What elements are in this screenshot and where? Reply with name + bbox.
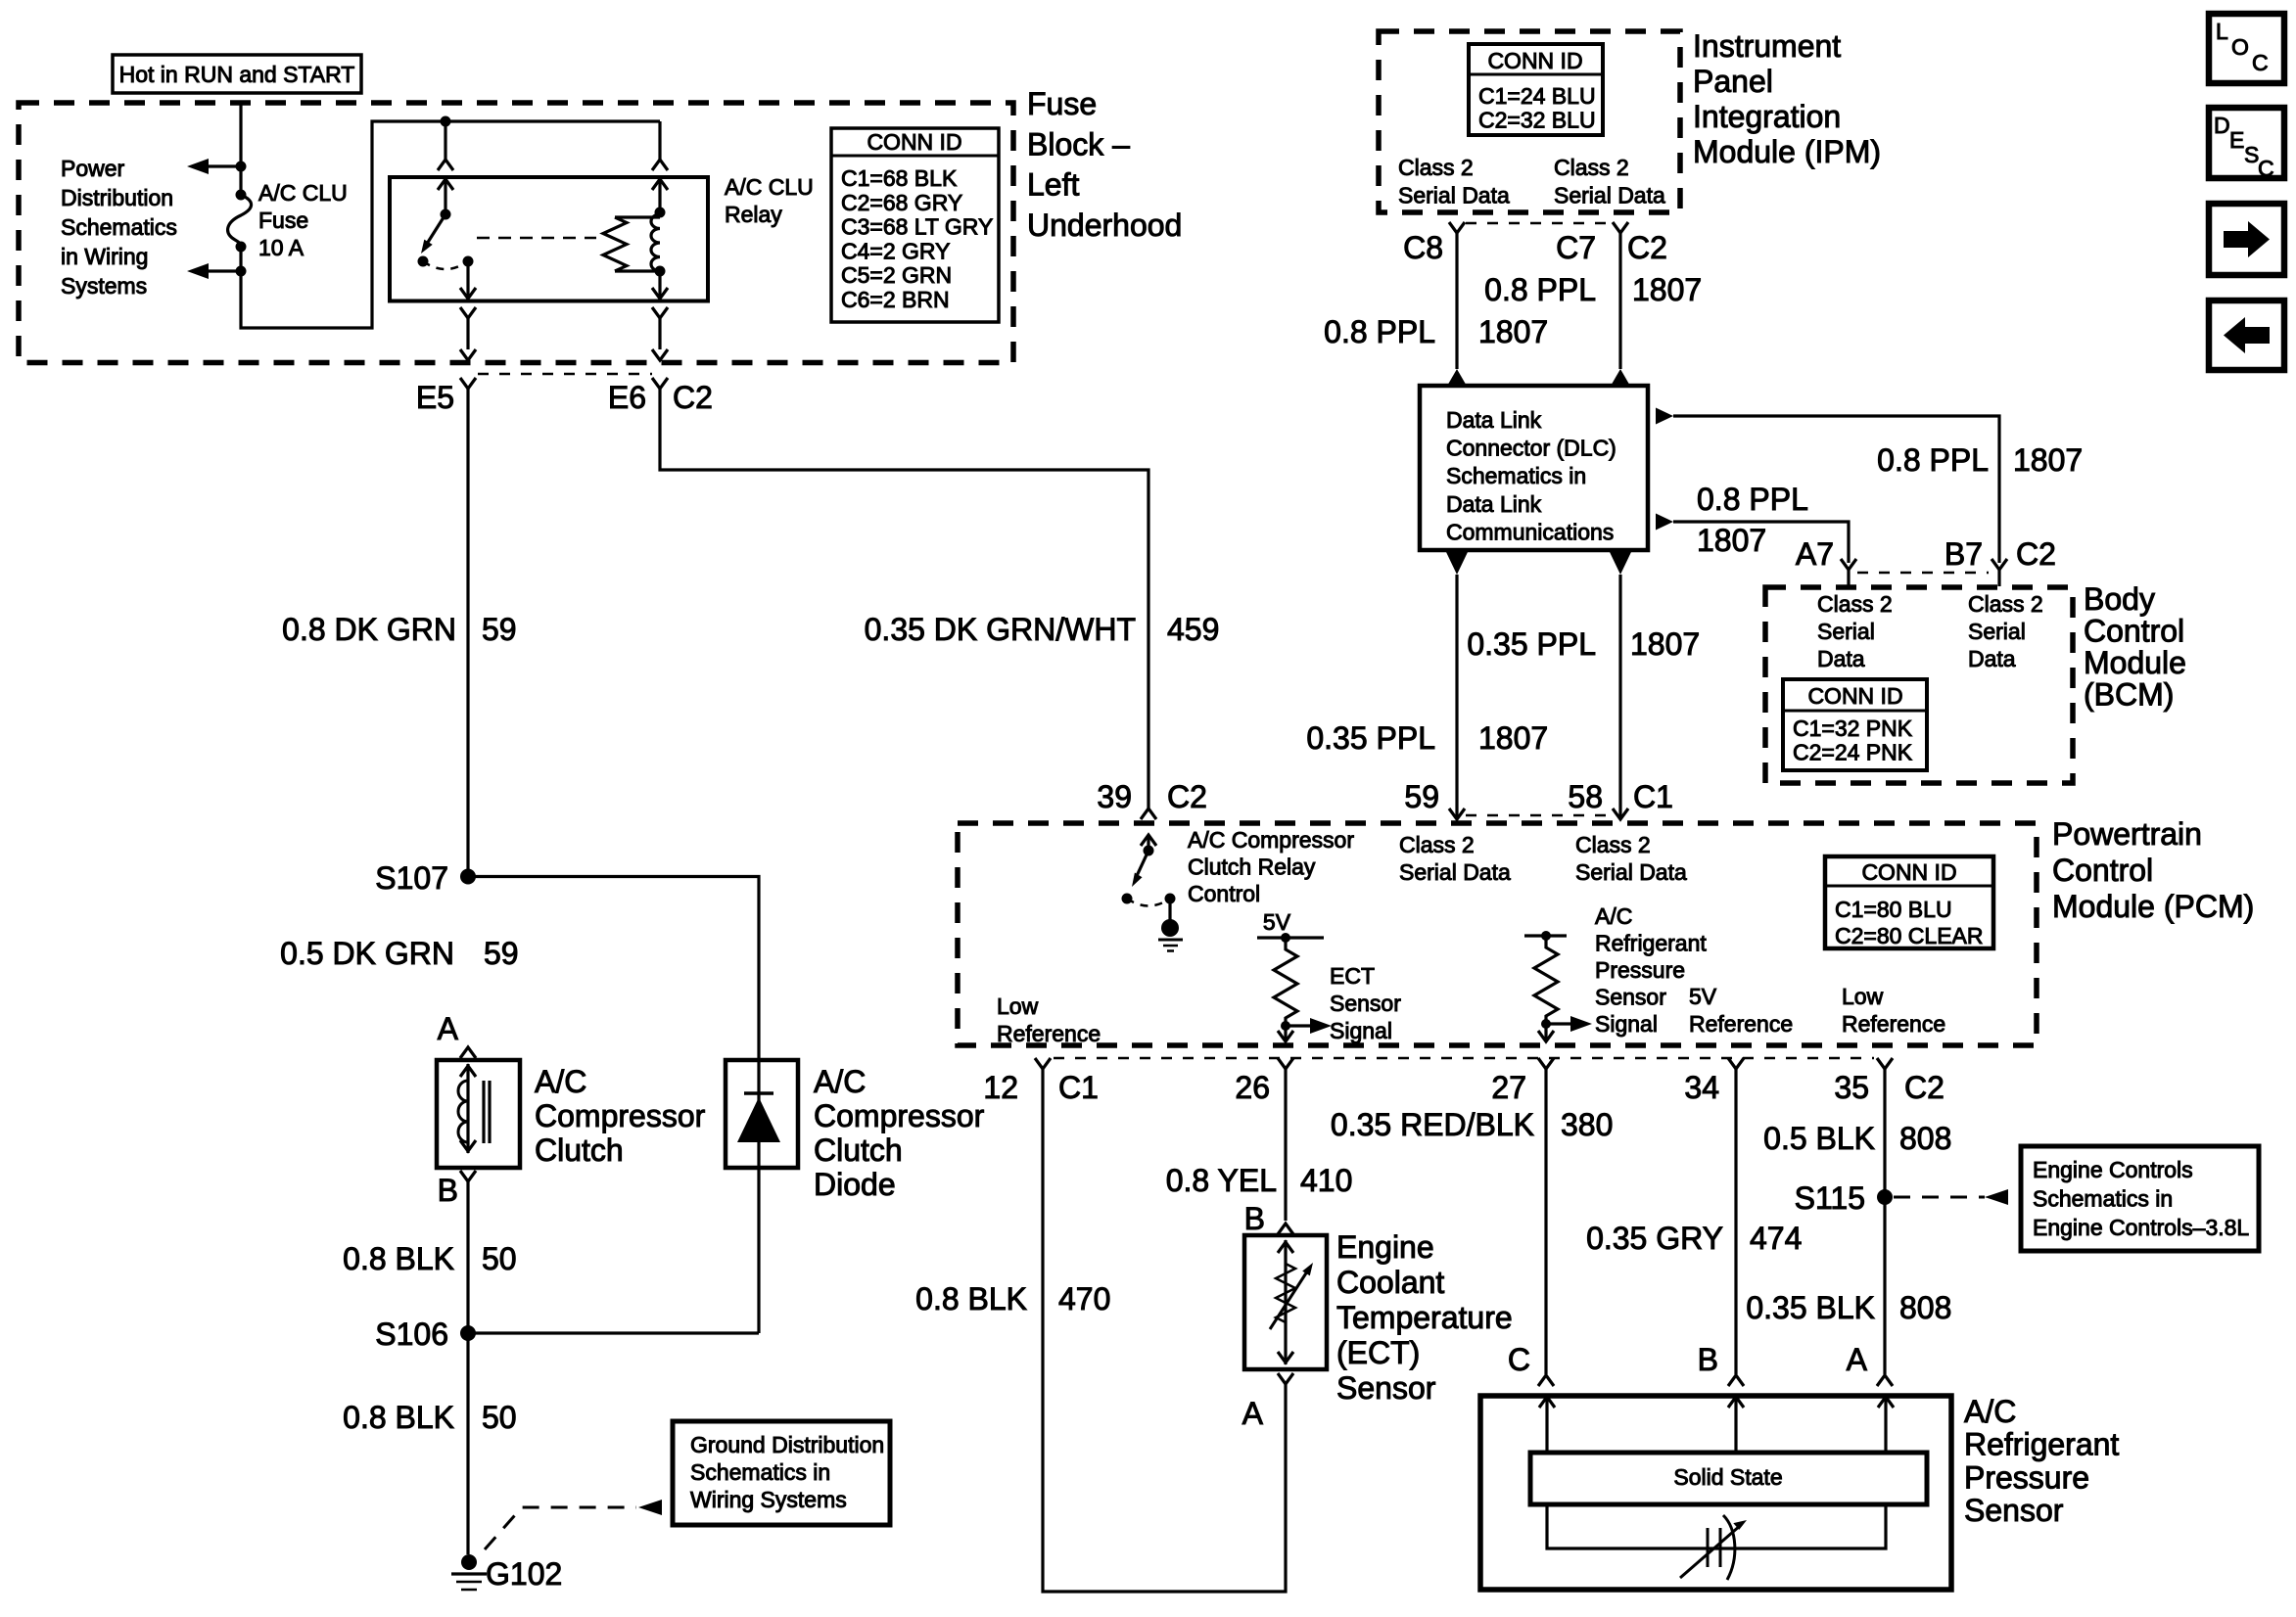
- svg-text:0.35 GRY: 0.35 GRY: [1586, 1221, 1723, 1256]
- svg-text:Power: Power: [61, 156, 125, 181]
- svg-text:1807: 1807: [1478, 314, 1548, 349]
- svg-text:A/C: A/C: [1595, 903, 1632, 929]
- svg-text:59: 59: [484, 936, 519, 971]
- svg-text:C1=68 BLK: C1=68 BLK: [841, 165, 958, 191]
- svg-text:S106: S106: [375, 1317, 448, 1352]
- svg-text:Low: Low: [997, 993, 1039, 1019]
- svg-text:1807: 1807: [1697, 523, 1766, 558]
- svg-text:Systems: Systems: [61, 273, 147, 299]
- svg-text:C2=32 BLU: C2=32 BLU: [1478, 108, 1596, 133]
- svg-text:ECT: ECT: [1330, 963, 1375, 989]
- svg-text:Temperature: Temperature: [1336, 1300, 1513, 1335]
- svg-text:Control: Control: [2052, 853, 2153, 888]
- svg-text:Sensor: Sensor: [1330, 991, 1401, 1016]
- svg-text:Engine Controls–3.8L: Engine Controls–3.8L: [2033, 1215, 2249, 1240]
- svg-text:Instrument: Instrument: [1693, 28, 1841, 64]
- svg-text:26: 26: [1235, 1070, 1270, 1105]
- svg-text:Class 2: Class 2: [1968, 591, 2043, 617]
- svg-text:Integration: Integration: [1693, 99, 1841, 134]
- svg-text:A/C: A/C: [1964, 1394, 2016, 1429]
- svg-text:C1: C1: [1633, 779, 1673, 814]
- svg-text:0.5 BLK: 0.5 BLK: [1763, 1121, 1875, 1156]
- svg-text:470: 470: [1058, 1281, 1110, 1317]
- svg-text:1807: 1807: [1630, 626, 1700, 662]
- svg-text:0.8 PPL: 0.8 PPL: [1877, 442, 1989, 478]
- svg-text:Coolant: Coolant: [1336, 1265, 1444, 1300]
- svg-text:A: A: [1847, 1342, 1868, 1377]
- svg-text:Left: Left: [1027, 167, 1079, 203]
- svg-text:B: B: [1244, 1201, 1265, 1236]
- svg-text:Data: Data: [1817, 646, 1865, 671]
- svg-text:A: A: [438, 1011, 459, 1046]
- svg-text:C8: C8: [1403, 230, 1443, 265]
- svg-text:Clutch: Clutch: [535, 1132, 624, 1168]
- svg-text:27: 27: [1491, 1070, 1526, 1105]
- svg-text:Solid State: Solid State: [1673, 1464, 1782, 1490]
- svg-text:A/C CLU: A/C CLU: [258, 180, 348, 206]
- svg-text:Serial Data: Serial Data: [1575, 859, 1687, 885]
- svg-text:Signal: Signal: [1330, 1018, 1392, 1043]
- svg-text:Serial Data: Serial Data: [1398, 183, 1510, 208]
- svg-text:1807: 1807: [2013, 442, 2083, 478]
- svg-text:Ground Distribution: Ground Distribution: [690, 1432, 884, 1457]
- svg-text:Powertrain: Powertrain: [2052, 816, 2202, 852]
- svg-text:C1=80 BLU: C1=80 BLU: [1835, 897, 1952, 922]
- svg-text:L: L: [2216, 19, 2228, 44]
- svg-text:0.8 PPL: 0.8 PPL: [1324, 314, 1435, 349]
- svg-text:0.35 DK GRN/WHT: 0.35 DK GRN/WHT: [865, 612, 1136, 647]
- svg-text:5V: 5V: [1263, 909, 1291, 935]
- svg-text:5V: 5V: [1689, 984, 1717, 1009]
- svg-text:Sensor: Sensor: [1595, 985, 1666, 1010]
- svg-text:Serial Data: Serial Data: [1554, 183, 1665, 208]
- svg-text:50: 50: [482, 1241, 517, 1276]
- svg-text:E6: E6: [608, 380, 646, 415]
- svg-text:0.35 BLK: 0.35 BLK: [1746, 1290, 1875, 1325]
- svg-text:(ECT): (ECT): [1336, 1335, 1420, 1370]
- svg-text:0.8 PPL: 0.8 PPL: [1484, 272, 1596, 307]
- svg-text:C7: C7: [1556, 230, 1596, 265]
- svg-text:10 A: 10 A: [258, 235, 305, 260]
- svg-text:0.35 RED/BLK: 0.35 RED/BLK: [1331, 1107, 1534, 1142]
- svg-text:G102: G102: [486, 1556, 562, 1592]
- svg-text:Data Link: Data Link: [1446, 407, 1542, 433]
- svg-text:A: A: [1242, 1396, 1264, 1431]
- svg-text:Sensor: Sensor: [1964, 1493, 2064, 1528]
- svg-text:Refrigerant: Refrigerant: [1595, 931, 1707, 956]
- svg-text:0.8 BLK: 0.8 BLK: [343, 1241, 454, 1276]
- svg-text:Data: Data: [1968, 646, 2016, 671]
- svg-text:50: 50: [482, 1400, 517, 1435]
- svg-text:Hot in RUN and START: Hot in RUN and START: [119, 62, 355, 87]
- svg-text:B: B: [438, 1173, 458, 1208]
- svg-text:Relay: Relay: [725, 202, 782, 227]
- svg-text:Connector (DLC): Connector (DLC): [1446, 436, 1617, 461]
- svg-text:Sensor: Sensor: [1336, 1370, 1436, 1406]
- svg-text:Engine: Engine: [1336, 1229, 1434, 1265]
- svg-text:808: 808: [1899, 1121, 1951, 1156]
- svg-text:C2: C2: [2016, 536, 2056, 572]
- svg-text:(BCM): (BCM): [2084, 677, 2174, 713]
- svg-text:Distribution: Distribution: [61, 185, 173, 210]
- svg-text:CONN ID: CONN ID: [1487, 48, 1582, 73]
- svg-text:S107: S107: [375, 860, 448, 896]
- svg-text:B: B: [1698, 1342, 1718, 1377]
- svg-text:0.8 YEL: 0.8 YEL: [1166, 1163, 1277, 1198]
- svg-text:808: 808: [1899, 1290, 1951, 1325]
- svg-text:in Wiring: in Wiring: [61, 244, 148, 269]
- svg-text:0.8 BLK: 0.8 BLK: [915, 1281, 1027, 1317]
- svg-text:Control: Control: [1188, 881, 1260, 906]
- svg-text:Clutch: Clutch: [814, 1132, 903, 1168]
- svg-text:Wiring Systems: Wiring Systems: [690, 1487, 847, 1512]
- svg-text:59: 59: [482, 612, 517, 647]
- svg-text:C: C: [1508, 1342, 1530, 1377]
- svg-text:C2: C2: [1904, 1070, 1945, 1105]
- svg-text:CONN ID: CONN ID: [1861, 859, 1956, 885]
- svg-text:Clutch Relay: Clutch Relay: [1188, 855, 1316, 880]
- svg-text:D: D: [2214, 113, 2230, 138]
- svg-text:Diode: Diode: [814, 1167, 896, 1202]
- svg-text:C5=2 GRN: C5=2 GRN: [841, 262, 952, 288]
- svg-text:0.35 PPL: 0.35 PPL: [1467, 626, 1596, 662]
- svg-text:Signal: Signal: [1595, 1011, 1658, 1037]
- svg-text:Low: Low: [1842, 984, 1884, 1009]
- svg-text:1807: 1807: [1478, 720, 1548, 756]
- svg-text:C6=2 BRN: C6=2 BRN: [841, 287, 950, 312]
- svg-text:Pressure: Pressure: [1595, 957, 1685, 983]
- svg-text:C2: C2: [1627, 230, 1667, 265]
- svg-text:A/C CLU: A/C CLU: [725, 174, 814, 200]
- svg-text:0.8 BLK: 0.8 BLK: [343, 1400, 454, 1435]
- svg-text:0.5 DK GRN: 0.5 DK GRN: [280, 936, 454, 971]
- svg-text:Compressor: Compressor: [535, 1098, 706, 1133]
- svg-text:Reference: Reference: [1842, 1011, 1945, 1037]
- svg-text:0.8 DK GRN: 0.8 DK GRN: [282, 612, 456, 647]
- svg-text:Module (PCM): Module (PCM): [2052, 889, 2254, 924]
- svg-text:Body: Body: [2084, 581, 2155, 617]
- svg-text:C2: C2: [673, 380, 713, 415]
- svg-text:E: E: [2229, 127, 2244, 153]
- svg-text:B7: B7: [1945, 536, 1983, 572]
- svg-text:Data Link: Data Link: [1446, 491, 1542, 517]
- svg-text:Underhood: Underhood: [1027, 208, 1182, 243]
- svg-text:Reference: Reference: [1689, 1011, 1793, 1037]
- svg-text:A/C: A/C: [535, 1064, 586, 1099]
- svg-text:C1=24 BLU: C1=24 BLU: [1478, 83, 1596, 109]
- svg-text:S115: S115: [1795, 1180, 1865, 1216]
- svg-text:C: C: [2252, 50, 2269, 75]
- svg-text:Schematics in: Schematics in: [2033, 1186, 2173, 1212]
- svg-text:Schematics in: Schematics in: [1446, 463, 1586, 488]
- svg-text:12: 12: [983, 1070, 1018, 1105]
- svg-text:C: C: [2258, 156, 2274, 181]
- svg-text:Module (IPM): Module (IPM): [1693, 134, 1881, 169]
- svg-text:Class 2: Class 2: [1817, 591, 1893, 617]
- svg-text:380: 380: [1561, 1107, 1613, 1142]
- svg-text:Panel: Panel: [1693, 64, 1773, 99]
- svg-text:Module: Module: [2084, 645, 2186, 680]
- svg-text:Schematics in: Schematics in: [690, 1459, 830, 1485]
- svg-text:39: 39: [1097, 779, 1132, 814]
- svg-text:E5: E5: [416, 380, 454, 415]
- svg-text:A7: A7: [1796, 536, 1834, 572]
- svg-text:Compressor: Compressor: [814, 1098, 985, 1133]
- svg-text:Pressure: Pressure: [1964, 1459, 2089, 1495]
- svg-text:A/C Compressor: A/C Compressor: [1188, 827, 1354, 853]
- svg-text:C2=80 CLEAR: C2=80 CLEAR: [1835, 923, 1984, 948]
- svg-text:Refrigerant: Refrigerant: [1964, 1427, 2119, 1462]
- svg-text:C2: C2: [1167, 779, 1207, 814]
- svg-text:Engine Controls: Engine Controls: [2033, 1157, 2193, 1182]
- svg-text:58: 58: [1568, 779, 1603, 814]
- svg-text:Class 2: Class 2: [1399, 832, 1475, 857]
- svg-text:Serial Data: Serial Data: [1399, 859, 1511, 885]
- svg-text:Serial: Serial: [1968, 619, 2026, 644]
- svg-text:C2=68 GRY: C2=68 GRY: [841, 190, 962, 215]
- svg-text:35: 35: [1834, 1070, 1869, 1105]
- svg-text:Fuse: Fuse: [258, 208, 308, 233]
- svg-text:C1=32 PNK: C1=32 PNK: [1793, 716, 1913, 741]
- svg-text:Class 2: Class 2: [1575, 832, 1651, 857]
- svg-text:Class 2: Class 2: [1398, 155, 1474, 180]
- svg-text:CONN ID: CONN ID: [867, 129, 961, 155]
- svg-text:474: 474: [1750, 1221, 1802, 1256]
- svg-text:Communications: Communications: [1446, 519, 1614, 544]
- svg-text:Serial: Serial: [1817, 619, 1875, 644]
- svg-text:Reference: Reference: [997, 1021, 1101, 1046]
- svg-text:Class 2: Class 2: [1554, 155, 1629, 180]
- svg-text:59: 59: [1404, 779, 1439, 814]
- svg-text:Schematics: Schematics: [61, 214, 177, 240]
- svg-text:Block –: Block –: [1027, 126, 1130, 162]
- svg-text:0.8 PPL: 0.8 PPL: [1697, 482, 1808, 517]
- svg-text:C1: C1: [1058, 1070, 1099, 1105]
- svg-text:0.35 PPL: 0.35 PPL: [1306, 720, 1435, 756]
- svg-text:C2=24 PNK: C2=24 PNK: [1793, 740, 1913, 765]
- svg-text:CONN ID: CONN ID: [1807, 683, 1902, 709]
- svg-text:Control: Control: [2084, 614, 2184, 649]
- svg-text:C4=2 GRY: C4=2 GRY: [841, 238, 950, 263]
- svg-text:C3=68 LT GRY: C3=68 LT GRY: [841, 214, 993, 240]
- svg-text:1807: 1807: [1632, 272, 1702, 307]
- svg-text:459: 459: [1167, 612, 1219, 647]
- svg-text:410: 410: [1300, 1163, 1352, 1198]
- svg-text:O: O: [2231, 34, 2249, 60]
- svg-text:Fuse: Fuse: [1027, 86, 1097, 121]
- svg-text:34: 34: [1684, 1070, 1719, 1105]
- svg-text:A/C: A/C: [814, 1064, 866, 1099]
